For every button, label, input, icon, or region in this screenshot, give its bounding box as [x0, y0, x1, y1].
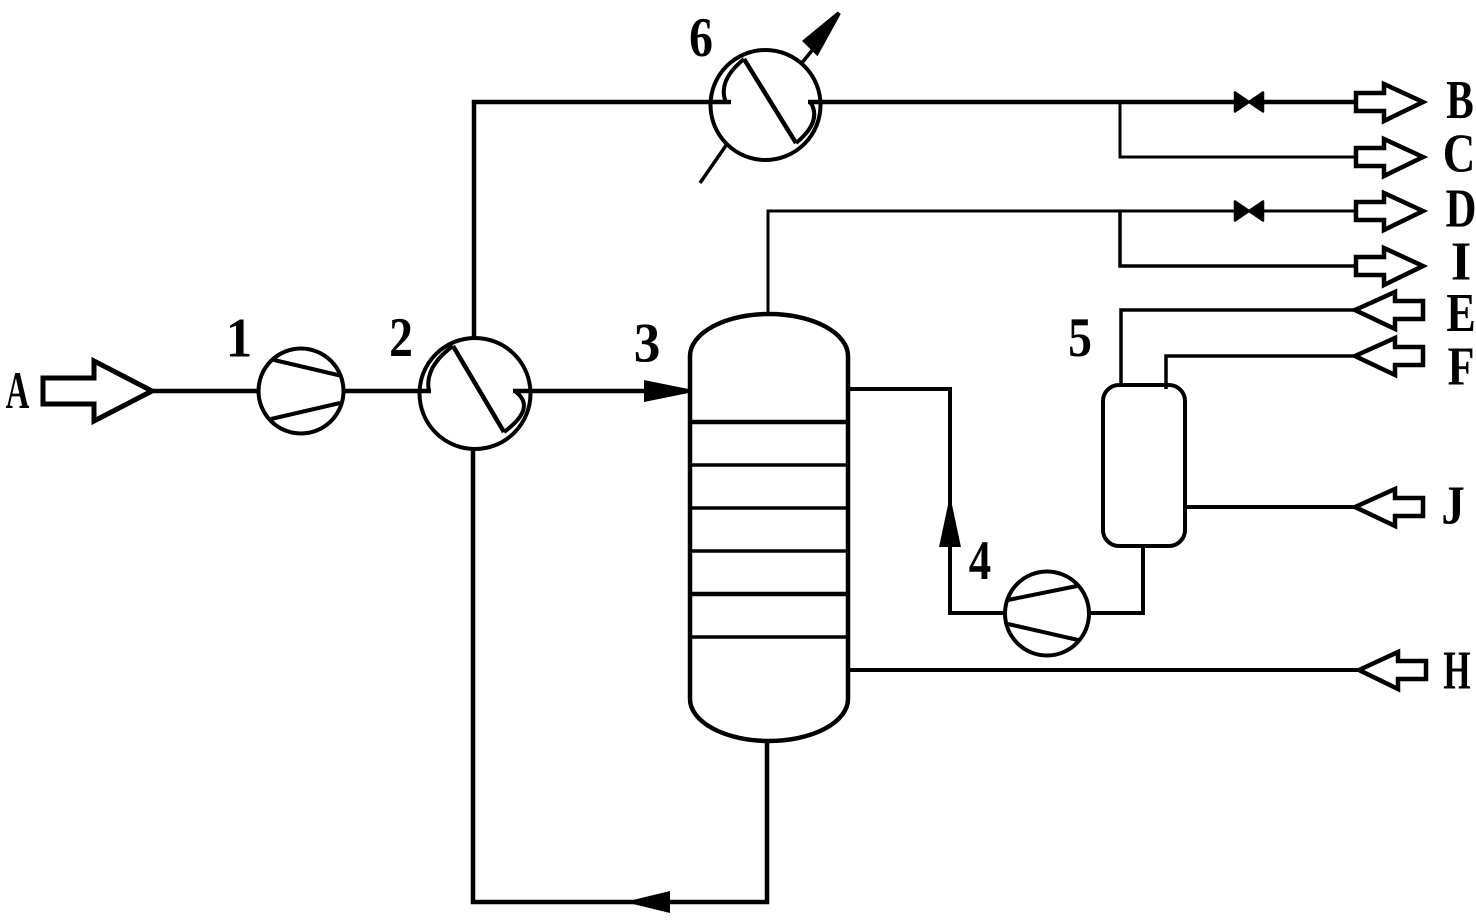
label F [1448, 336, 1475, 397]
svg-text:J: J [1441, 475, 1464, 536]
label 2 [389, 307, 413, 369]
wire pump 4 to drum 5 bottom [1089, 546, 1143, 613]
label I [1451, 231, 1471, 292]
svg-text:1: 1 [226, 308, 253, 370]
wire valve to arrow D [1263, 210, 1356, 213]
label C [1443, 123, 1476, 184]
node I outlet block arrow [1356, 248, 1423, 285]
left arrowhead on recycle line [633, 894, 668, 911]
label 6 [689, 7, 713, 69]
wire branch D to I [1120, 211, 1356, 266]
wire column overhead to pump 4 [848, 389, 1005, 613]
svg-text:H: H [1443, 640, 1470, 701]
svg-text:A: A [6, 362, 30, 420]
feed arrowhead into column 3 [646, 383, 688, 400]
svg-text:F: F [1448, 336, 1475, 397]
label D [1446, 178, 1476, 239]
tray 5 [690, 592, 848, 597]
svg-text:2: 2 [389, 307, 413, 369]
cooler 6 [700, 13, 839, 183]
label 4 [969, 530, 991, 592]
wire column bottom recycle loop [473, 449, 767, 902]
wire cooler 6 to valve B [808, 100, 1234, 105]
tray 2 [690, 463, 848, 467]
up arrowhead on pump suction riser [942, 505, 959, 545]
tray 3 [690, 506, 848, 510]
node F inlet block arrow [1355, 338, 1423, 375]
wire E inlet down to drum 5 [1121, 310, 1355, 387]
wire pump 1 to exchanger 2 [344, 389, 432, 394]
svg-text:3: 3 [634, 313, 661, 375]
pump 4 [1005, 572, 1089, 656]
tray 4 [690, 549, 848, 553]
label 5 [1068, 307, 1092, 369]
tray 1 [690, 420, 848, 425]
node C outlet block arrow [1356, 139, 1423, 176]
pump 1 [259, 349, 344, 434]
wire exchanger 2 top riser to cooler 6 line [474, 102, 731, 338]
valve on line B [1235, 93, 1263, 112]
wire valve to arrow B [1263, 100, 1356, 105]
drum 5 [1103, 385, 1185, 546]
node J inlet block arrow [1355, 489, 1423, 526]
column 3 [690, 314, 848, 741]
svg-text:4: 4 [969, 530, 991, 592]
label 1 [226, 308, 253, 370]
svg-text:D: D [1446, 178, 1476, 239]
node D outlet block arrow [1356, 193, 1423, 230]
svg-text:C: C [1443, 123, 1476, 184]
label A [6, 362, 30, 420]
wire column bottoms to arrow H [848, 668, 1359, 672]
wire drum 5 to arrow J [1185, 505, 1355, 509]
label B [1446, 69, 1474, 130]
label J [1441, 475, 1464, 536]
wire column top to valve D [768, 211, 1234, 313]
node A inlet block arrow [43, 361, 152, 421]
wire exchanger 2 to column feed [513, 389, 660, 394]
wire F inlet down to drum 5 [1166, 356, 1355, 389]
label 3 [634, 313, 661, 375]
heat exchanger 2 [420, 338, 531, 449]
wire feed A to pump 1 [152, 389, 258, 394]
svg-text:E: E [1446, 282, 1475, 343]
label H [1443, 640, 1470, 701]
node E inlet block arrow [1355, 292, 1423, 329]
label E [1446, 282, 1475, 343]
valve on line D [1235, 202, 1263, 221]
wire branch B to C [1120, 102, 1356, 157]
tray 6 [690, 635, 848, 639]
svg-text:5: 5 [1068, 307, 1092, 369]
svg-text:6: 6 [689, 7, 713, 69]
node B outlet block arrow [1356, 84, 1423, 121]
node H inlet block arrow [1359, 652, 1426, 689]
svg-text:B: B [1446, 69, 1474, 130]
